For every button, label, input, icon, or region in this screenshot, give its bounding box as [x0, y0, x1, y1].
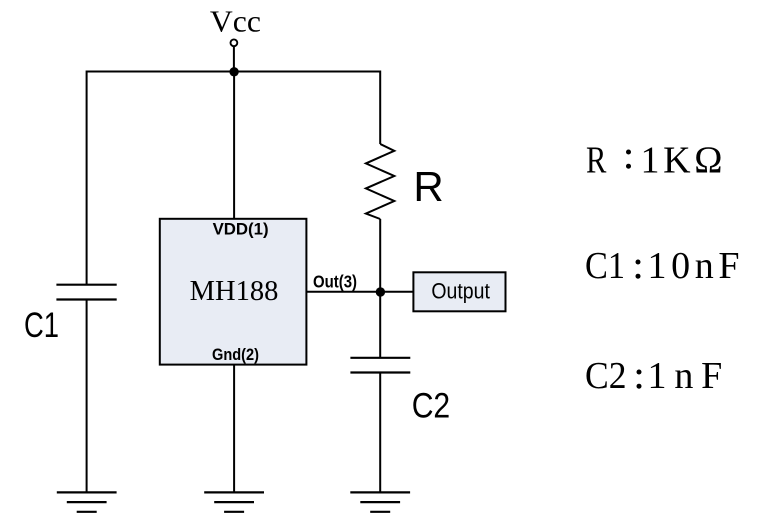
ground (left, under C1) — [57, 492, 117, 511]
value note C2 = 1nF — [585, 355, 722, 397]
svg-text:Out(3): Out(3) — [313, 272, 357, 292]
ground (right, under C2) — [350, 492, 410, 511]
wire: Vcc stub to top rail — [233, 47, 235, 72]
svg-text:Vcc: Vcc — [210, 3, 261, 38]
svg-text:10nF: 10nF — [648, 245, 740, 287]
svg-text:R: R — [586, 140, 607, 182]
wire: node to Output box — [380, 291, 413, 293]
node: Vcc junction (filled dot) — [229, 67, 238, 76]
node: output junction (filled dot) — [376, 287, 385, 296]
wire: C1 to ground — [86, 300, 88, 493]
svg-text:C1: C1 — [585, 245, 625, 287]
wire: node down to C2 — [379, 292, 381, 358]
resistor R (zigzag) — [366, 144, 394, 219]
wire: middle branch from junction to IC VDD pin — [233, 72, 235, 220]
svg-text:1nF: 1nF — [648, 355, 723, 397]
svg-text:C2: C2 — [585, 355, 627, 397]
Vcc terminal (open circle) — [231, 39, 238, 46]
svg-text:C1: C1 — [24, 306, 59, 345]
svg-text:MH188: MH188 — [190, 276, 279, 307]
svg-text:Gnd(2): Gnd(2) — [212, 345, 259, 364]
ground (middle, under IC) — [204, 492, 264, 511]
capacitor C2 (plates) — [350, 358, 410, 373]
wire: IC Gnd pin to ground — [233, 365, 235, 493]
wire: resistor to output node — [379, 219, 381, 292]
IC U1 MH188 (body) — [160, 219, 307, 365]
value note C1 = 10nF — [585, 245, 740, 287]
value note R = 1K ohm — [586, 140, 723, 182]
wire: top rail (horizontal) — [87, 71, 381, 73]
svg-text:R: R — [413, 163, 443, 210]
capacitor C1 (plates) — [56, 285, 116, 300]
wire: C2 to ground — [379, 373, 381, 493]
Output box — [413, 272, 505, 311]
wire: Out(3) pin from IC to node — [306, 291, 380, 293]
wire: right branch down to resistor — [379, 71, 381, 145]
svg-text:C2: C2 — [412, 386, 451, 425]
svg-text:1KΩ: 1KΩ — [641, 140, 723, 182]
wire: left branch down to C1 — [86, 71, 88, 285]
svg-text:Output: Output — [431, 278, 490, 303]
svg-text:VDD(1): VDD(1) — [213, 220, 269, 238]
